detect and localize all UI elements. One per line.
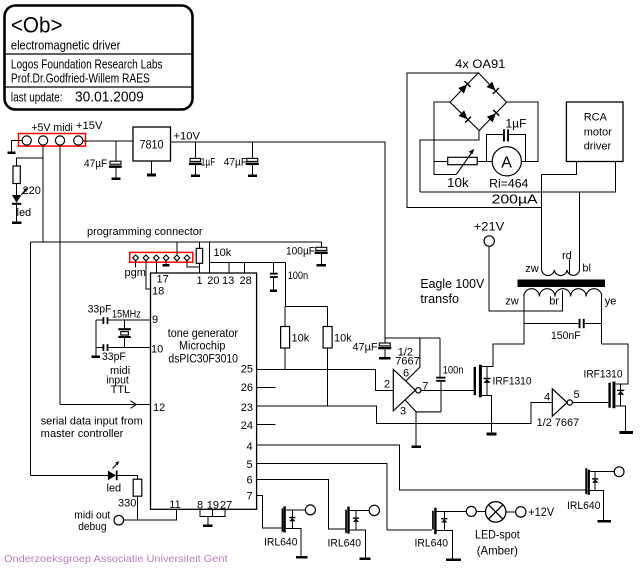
svg-text:1: 1 bbox=[197, 275, 203, 287]
wire lamp leads bbox=[476, 511, 485, 513]
svg-text:200µA: 200µA bbox=[492, 192, 538, 207]
wire +5V drop to +5V rail bbox=[42, 145, 44, 242]
ground at C 47uF input bbox=[112, 178, 121, 181]
MOSFET Q4 IRL640 bbox=[345, 507, 369, 558]
svg-text:IRL640: IRL640 bbox=[415, 538, 449, 550]
ground at Q2 source bbox=[619, 431, 633, 434]
svg-text:<Ob>: <Ob> bbox=[11, 13, 63, 38]
terminal Q3 drain bbox=[305, 505, 315, 515]
capacitor 100n vdd bypass bbox=[270, 262, 278, 290]
wire bus down to 10k pullups bbox=[284, 262, 286, 306]
RCA motor driver box bbox=[566, 102, 623, 162]
svg-text:2: 2 bbox=[384, 379, 390, 391]
svg-text:7667: 7667 bbox=[395, 356, 419, 368]
svg-text:24: 24 bbox=[241, 420, 253, 432]
wire zw vertical to RCA pin1 bbox=[542, 162, 577, 175]
svg-text:12: 12 bbox=[153, 402, 165, 414]
wire led to resistor 330 bbox=[118, 475, 138, 479]
wire debug to micro pin11 bbox=[124, 509, 177, 520]
svg-text:47µF: 47µF bbox=[224, 157, 247, 169]
svg-text:6: 6 bbox=[247, 475, 253, 487]
svg-text:Microchip: Microchip bbox=[179, 341, 225, 353]
svg-text:5: 5 bbox=[574, 389, 580, 401]
diode D6 (bottom-right) bbox=[487, 110, 500, 123]
svg-text:IRF1310: IRF1310 bbox=[493, 376, 532, 388]
capacitor 47uF input bbox=[109, 141, 122, 178]
svg-text:ye: ye bbox=[605, 296, 617, 308]
wire bus to pin20 bbox=[208, 262, 210, 273]
wire bl rail to RCA pin2 bbox=[420, 162, 616, 193]
wire 7667B output to Q2 gate bbox=[572, 402, 608, 404]
svg-text:dsPIC30F3010: dsPIC30F3010 bbox=[168, 354, 238, 366]
terminal +21V bbox=[484, 236, 494, 246]
wire pin24 stub bbox=[257, 424, 276, 426]
wire pin3 to ground bbox=[405, 400, 441, 412]
ground at Q1 source bbox=[486, 433, 496, 436]
MOSFET Q6 IRL640 bbox=[585, 468, 614, 520]
svg-text:1µF: 1µF bbox=[201, 157, 216, 169]
svg-text:4: 4 bbox=[247, 441, 253, 453]
svg-text:+21V: +21V bbox=[474, 220, 504, 234]
+5V pullup rail bbox=[31, 241, 322, 243]
svg-text:master controller: master controller bbox=[41, 428, 124, 440]
wire to 10k right top bbox=[327, 307, 329, 327]
wire 7810 to ground bbox=[151, 161, 153, 174]
wire pullup tee bbox=[285, 306, 328, 308]
wire pin25 to inverter input 2 bbox=[257, 370, 394, 391]
resistor 330 bbox=[133, 479, 142, 496]
svg-text:23: 23 bbox=[241, 402, 253, 414]
svg-text:zw: zw bbox=[525, 263, 539, 275]
capacitor 100n 7667 bypass bbox=[436, 338, 445, 412]
regulator 7810 bbox=[133, 127, 171, 161]
wire pgm pin2 to micro pin18 bbox=[146, 261, 151, 289]
svg-text:+5V midi: +5V midi bbox=[31, 122, 72, 134]
wire pin4 to IRL640 Q6 gate bbox=[257, 445, 586, 490]
ground at Q3 source bbox=[296, 556, 308, 559]
wire pins 8 19 27 comb to ground bbox=[200, 509, 225, 525]
terminal +12V bbox=[516, 507, 526, 517]
svg-text:transfo: transfo bbox=[420, 291, 459, 306]
svg-text:+12V: +12V bbox=[528, 505, 554, 519]
vdd bus wire bbox=[209, 261, 285, 263]
svg-text:15MHz: 15MHz bbox=[112, 309, 141, 321]
svg-text:pgm: pgm bbox=[125, 267, 146, 279]
transformer T1 secondary winding bbox=[524, 289, 602, 297]
wire pgm pin1 stub bbox=[135, 261, 137, 268]
wire secondary ye to Q2 drain bbox=[601, 297, 603, 345]
svg-text:electromagnetic driver: electromagnetic driver bbox=[11, 38, 121, 53]
wire pgm pin3 to micro pin17 bbox=[155, 261, 157, 273]
svg-text:IRL640: IRL640 bbox=[264, 537, 298, 549]
ground at C 47uF rail bbox=[248, 175, 257, 178]
svg-text:10: 10 bbox=[151, 344, 163, 356]
potentiometer 10k bbox=[448, 157, 478, 164]
ground at pgm pin4 bbox=[163, 264, 170, 267]
wire pin5 to IRL640 Q5 gate bbox=[257, 464, 433, 531]
wire to midi-out led bbox=[31, 474, 108, 476]
svg-text:4: 4 bbox=[544, 392, 550, 404]
svg-text:bl: bl bbox=[582, 263, 591, 275]
svg-text:1/2 7667: 1/2 7667 bbox=[537, 417, 580, 429]
capacitor 47uF 7667 supply bbox=[378, 338, 391, 358]
ground at pins 8 19 27 bbox=[203, 524, 212, 527]
diode D5 (left-bottom) bbox=[458, 110, 471, 123]
svg-text:+10V: +10V bbox=[174, 131, 201, 143]
wire resistor to debug node bbox=[137, 496, 139, 520]
svg-text:10k: 10k bbox=[334, 333, 352, 345]
svg-text:100n: 100n bbox=[443, 365, 464, 377]
svg-text:10k: 10k bbox=[447, 175, 469, 190]
resistor 10k pullup A bbox=[281, 327, 290, 349]
diode D4 (top-right) bbox=[486, 81, 499, 94]
MOSFET Q1 IRF1310 bbox=[474, 344, 525, 433]
svg-text:IRL640: IRL640 bbox=[567, 500, 601, 512]
ground at C 100n bbox=[270, 289, 277, 292]
diode bridge outer loop wire bbox=[407, 73, 541, 208]
ground at Q5 source bbox=[446, 558, 461, 561]
svg-text:26: 26 bbox=[241, 382, 253, 394]
wire pin6 to V+ bbox=[406, 338, 420, 381]
meter M1 ammeter bbox=[492, 147, 521, 176]
svg-text:debug: debug bbox=[78, 521, 106, 533]
svg-text:A: A bbox=[501, 155, 512, 172]
wire bridge right vertex to meter bbox=[507, 102, 538, 161]
svg-text:last update:: last update: bbox=[11, 90, 63, 104]
wire 10k bottom to micro pin1 bbox=[198, 263, 200, 273]
bridge diamond wires bbox=[450, 73, 507, 131]
wire bus to pin28 bbox=[244, 262, 246, 273]
MOSFET Q2 IRF1310 bbox=[602, 344, 628, 432]
microcontroller U1 dsPIC30F3010 bbox=[151, 273, 257, 509]
ground at C 1uF bbox=[191, 175, 200, 178]
capacitor 1uF meter bypass bbox=[487, 129, 526, 161]
svg-text:rd: rd bbox=[562, 250, 572, 262]
wire rail drop to vdd bus bbox=[208, 242, 210, 262]
svg-text:zw: zw bbox=[505, 296, 519, 308]
ground at C 100uF bbox=[317, 264, 326, 267]
svg-text:10k: 10k bbox=[214, 247, 232, 259]
svg-text:30.01.2009: 30.01.2009 bbox=[75, 90, 144, 106]
svg-text:13: 13 bbox=[222, 275, 234, 287]
svg-text:tone generator: tone generator bbox=[168, 328, 238, 340]
wire pgm pin4 to ground bbox=[165, 261, 167, 265]
rheostat wiper arrow bbox=[456, 149, 474, 175]
inverter U2B 7667 bbox=[552, 389, 572, 417]
title block frame bbox=[4, 6, 193, 110]
capacitor 150nF bbox=[579, 319, 585, 328]
wire pin23 to inverter input 4 rail bbox=[257, 403, 553, 424]
ground at Q4 source bbox=[360, 557, 371, 560]
wire +15V pin to 7810 input bbox=[83, 140, 133, 142]
terminal Q6 drain bbox=[614, 467, 624, 477]
svg-text:18: 18 bbox=[152, 286, 164, 298]
svg-text:47µF: 47µF bbox=[353, 342, 378, 354]
wire +10V rail bbox=[171, 142, 385, 343]
wire to 10k left top bbox=[284, 307, 286, 327]
connector pgm (red highlight) bbox=[130, 252, 193, 262]
wire secondary zw to Q1 drain bbox=[493, 297, 524, 344]
ground at 7667 pin3 bbox=[412, 445, 422, 448]
svg-text:6: 6 bbox=[403, 368, 409, 380]
wire 7667 V+ bbox=[385, 337, 440, 339]
transformer T1 primary winding bbox=[542, 175, 580, 276]
wire led to ground bbox=[16, 205, 18, 222]
svg-text:Prof.Dr.Godfried-Willem RAES: Prof.Dr.Godfried-Willem RAES bbox=[11, 72, 150, 86]
svg-text:LED-spot: LED-spot bbox=[475, 528, 520, 542]
wire bridge left vertex to rheostat bbox=[434, 102, 456, 175]
svg-text:1µF: 1µF bbox=[506, 117, 527, 131]
svg-text:33pF: 33pF bbox=[102, 351, 126, 363]
wire pin6 to IRL640 Q4 gate bbox=[257, 479, 346, 528]
wire midi input to pin12 with arrow bbox=[60, 404, 151, 406]
transformer core bbox=[518, 280, 606, 288]
terminal Q4 drain bbox=[369, 505, 379, 515]
svg-text:100n: 100n bbox=[288, 270, 309, 282]
svg-text:IRL640: IRL640 bbox=[328, 538, 362, 550]
svg-text:150nF: 150nF bbox=[551, 330, 581, 342]
ground at Q6 source bbox=[597, 520, 610, 523]
wire 7667A output to Q1 gate bbox=[421, 389, 474, 391]
wire connector pin1 to ground bbox=[12, 141, 23, 152]
svg-text:+15V: +15V bbox=[76, 120, 103, 132]
wire rail down left side bbox=[30, 242, 32, 475]
wire bridge bottom vertex to bl rail bbox=[420, 131, 479, 193]
svg-text:br: br bbox=[549, 296, 559, 308]
wire pin10 osc bbox=[109, 347, 151, 349]
resistor 10k pullup B bbox=[323, 327, 332, 349]
svg-text:motor: motor bbox=[584, 127, 612, 139]
svg-text:led: led bbox=[17, 207, 32, 219]
LED D1 power indicator bbox=[12, 188, 28, 204]
wire 10k right bottom to pin23 net bbox=[327, 348, 329, 406]
terminal Q5 drain / lamp A bbox=[466, 506, 476, 516]
wire +21V to secondary center tap bbox=[489, 246, 562, 311]
ground at 7810 bbox=[147, 174, 156, 177]
svg-text:9: 9 bbox=[152, 314, 158, 326]
svg-text:7810: 7810 bbox=[140, 138, 164, 152]
capacitor 47uF on +10V bbox=[246, 142, 259, 175]
wire bus to pin13 bbox=[228, 262, 230, 273]
svg-text:17: 17 bbox=[157, 274, 169, 286]
wire 10k left bottom to pin25 net bbox=[284, 348, 286, 370]
capacitor 33pF bottom bbox=[103, 344, 109, 351]
capacitor 33pF top bbox=[103, 317, 109, 324]
wire midi-in drop to pin12 wire bbox=[59, 145, 61, 404]
inverter U2A 7667 bbox=[393, 369, 421, 411]
svg-text:3: 3 bbox=[400, 406, 406, 418]
wire pgm pin6 to 10k bottom bbox=[187, 261, 199, 267]
svg-text:Eagle 100V: Eagle 100V bbox=[420, 276, 484, 291]
svg-text:(Amber): (Amber) bbox=[477, 544, 518, 558]
svg-text:25: 25 bbox=[241, 363, 253, 375]
svg-text:serial data input from: serial data input from bbox=[41, 416, 143, 428]
wire pin9 osc bbox=[109, 319, 151, 321]
svg-text:programming connector: programming connector bbox=[87, 226, 203, 238]
wire 150nF across secondary bbox=[524, 322, 579, 324]
ground at C 47uF 7667 bbox=[379, 357, 390, 360]
svg-text:28: 28 bbox=[240, 275, 252, 287]
svg-text:330: 330 bbox=[118, 498, 136, 510]
crystal X1 15MHz bbox=[118, 320, 131, 348]
svg-text:Logos Foundation Research Labs: Logos Foundation Research Labs bbox=[11, 58, 163, 72]
svg-text:Onderzoeksgroep Associatie Uni: Onderzoeksgroep Associatie Universiteit … bbox=[4, 553, 228, 565]
svg-text:47µF: 47µF bbox=[84, 158, 107, 170]
svg-text:driver: driver bbox=[584, 140, 612, 152]
wire lamp to +12V terminal bbox=[506, 511, 516, 513]
svg-text:led: led bbox=[107, 482, 122, 494]
svg-text:RCA: RCA bbox=[584, 112, 608, 124]
MOSFET Q3 IRL640 bbox=[282, 506, 306, 556]
capacitor 1uF bbox=[189, 142, 202, 175]
svg-text:midi out: midi out bbox=[74, 509, 110, 521]
wire pin26 stub bbox=[257, 386, 276, 388]
svg-text:20: 20 bbox=[207, 275, 219, 287]
svg-text:7: 7 bbox=[247, 491, 253, 503]
ground at led D1 bbox=[12, 222, 21, 225]
wire 10k top to rail bbox=[198, 242, 200, 248]
LED D2 midi out bbox=[108, 461, 119, 480]
wire pin7 to IRL640 Q3 gate bbox=[257, 495, 282, 528]
svg-text:IRF1310: IRF1310 bbox=[584, 369, 623, 381]
svg-text:11: 11 bbox=[169, 499, 180, 511]
lamp LED-spot bbox=[486, 502, 506, 522]
ground at connector J1 bbox=[8, 151, 16, 154]
svg-text:33pF: 33pF bbox=[88, 304, 112, 316]
wire resistor to led bbox=[16, 184, 18, 196]
svg-text:4x OA91: 4x OA91 bbox=[455, 57, 506, 71]
svg-text:10k: 10k bbox=[292, 333, 310, 345]
wire branch to led resistor bbox=[17, 158, 43, 166]
capacitor 100uF bbox=[315, 242, 328, 265]
MOSFET Q5 IRL640 bbox=[432, 508, 466, 559]
terminal midi out debug bbox=[114, 515, 124, 525]
svg-text:Ri=464: Ri=464 bbox=[489, 177, 529, 191]
primary tap rd stub bbox=[568, 260, 570, 274]
connector J1 midi/power (red highlight) bbox=[19, 134, 86, 147]
resistor 10k MCLR pullup bbox=[196, 248, 202, 263]
svg-text:27: 27 bbox=[220, 499, 232, 511]
diode D3 (left-top) bbox=[458, 81, 471, 94]
wire pot right to meter bbox=[477, 160, 492, 162]
wire pot left lead bbox=[434, 160, 448, 162]
svg-text:TTL: TTL bbox=[111, 384, 131, 396]
wire pgm pin5 to +5V rail bbox=[176, 242, 178, 255]
ground at osc bbox=[91, 355, 100, 358]
wire osc caps common to ground bbox=[95, 320, 97, 356]
svg-text:19: 19 bbox=[207, 499, 219, 511]
svg-text:100µF: 100µF bbox=[286, 246, 315, 258]
resistor 220 bbox=[13, 166, 20, 184]
svg-text:5: 5 bbox=[247, 459, 253, 471]
